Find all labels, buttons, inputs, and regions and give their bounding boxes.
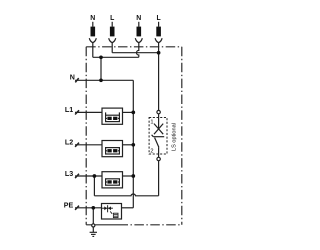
svg-text:L: L	[110, 15, 114, 22]
svg-text:2: 2	[150, 148, 153, 154]
junction: L link to breaker bus	[157, 51, 161, 55]
junction: SPD L3 output on N bus	[131, 174, 135, 178]
earth terminal circle on enclosure bottom	[92, 224, 95, 227]
junction: return riser tap on L3 row	[93, 174, 97, 178]
svg-text:PE: PE	[64, 202, 74, 210]
terminal slash PE entry	[75, 206, 79, 210]
terminal N1 (top, protected output N)	[89, 22, 96, 43]
wire: L3 input row	[75, 175, 102, 177]
wire: terminal L1' down to L link row	[111, 43, 113, 53]
wire: terminal L2' down to breaker top	[158, 43, 160, 111]
breaker internal: line from top to X	[158, 114, 160, 129]
wire: terminal N1 down to N link row	[92, 43, 94, 58]
SPD F1 (varistor/spark gap arrester, phase L1)	[102, 108, 123, 124]
wire: N link row horizontal (N1 to N2 vertical)	[93, 56, 139, 58]
junction: SPD L2 output on N bus	[131, 143, 135, 147]
terminal N2 (top, protected output N)	[135, 22, 142, 43]
enclosure (dash-dot device boundary)	[86, 47, 182, 225]
wire: N bus spur into N-PE spark gap	[122, 207, 134, 209]
terminal L2' (top, protected output L)	[155, 22, 162, 43]
svg-text:L1: L1	[65, 106, 73, 114]
wire: PE drop to earth terminal	[92, 208, 94, 224]
breaker X symbol	[154, 124, 163, 135]
breaker bottom connection circle	[157, 157, 160, 160]
wire: breaker bottom down to return row	[158, 161, 160, 196]
breaker internal: line from blade to bottom	[158, 147, 160, 157]
wire: riser from N link row down to N input row	[100, 57, 102, 80]
breaker top connection circle	[157, 110, 160, 113]
wire: terminal N2 down with hop over L link wire	[137, 43, 139, 58]
svg-text:1: 1	[150, 120, 153, 126]
svg-text:L3: L3	[65, 170, 73, 178]
wire: L link row horizontal (L1' to L2' vertical)	[112, 52, 158, 54]
wire: SPD L1 output to N bus	[123, 111, 134, 113]
wire: N bus vertical	[132, 80, 134, 208]
junction: SPD L1 output on N bus	[131, 111, 135, 115]
svg-text:N: N	[90, 15, 95, 22]
terminal slash L1 entry	[75, 110, 79, 114]
terminal slash N entry	[75, 78, 78, 82]
breaker contact tick	[152, 135, 154, 137]
SPD F2 (varistor/spark gap arrester, phase L2)	[102, 141, 123, 157]
terminal slash L2 entry	[75, 143, 79, 147]
terminal slash L3 entry	[75, 174, 79, 178]
breaker fixed contact bar	[153, 136, 164, 138]
svg-text:N: N	[70, 73, 75, 81]
wire: SPD L2 output to N bus	[123, 144, 134, 146]
wire: return riser up to L3 row tap	[93, 176, 95, 196]
spark gap F4 (N-PE gap)	[102, 204, 122, 220]
svg-text:N: N	[136, 15, 141, 22]
svg-text:L2: L2	[65, 139, 73, 147]
svg-text:LS optional: LS optional	[172, 123, 178, 151]
wire: L2 input row	[75, 144, 102, 146]
wire: L1 input row	[75, 111, 102, 113]
junction: PE row to earth drop	[91, 206, 95, 210]
junction: riser to N input row	[99, 78, 103, 82]
junction: N link to riser	[99, 55, 103, 59]
breaker dashed outline	[149, 118, 167, 155]
ground (earth symbol)	[90, 232, 97, 236]
wire: return row horizontal with hop over N bus	[94, 194, 158, 196]
wire: earth lead	[92, 227, 94, 232]
terminal L1' (top, protected output L)	[109, 22, 116, 43]
SPD F3 (varistor/spark gap arrester, phase L3)	[102, 172, 123, 188]
wire: PE input row	[75, 207, 102, 209]
wire: N input row (left entry to N bus corner)	[75, 79, 133, 81]
breaker switch blade	[155, 138, 159, 148]
circuit breaker LS (optional)	[149, 110, 167, 160]
wire: SPD L3 output to N bus	[123, 175, 134, 177]
svg-text:L: L	[156, 15, 160, 22]
